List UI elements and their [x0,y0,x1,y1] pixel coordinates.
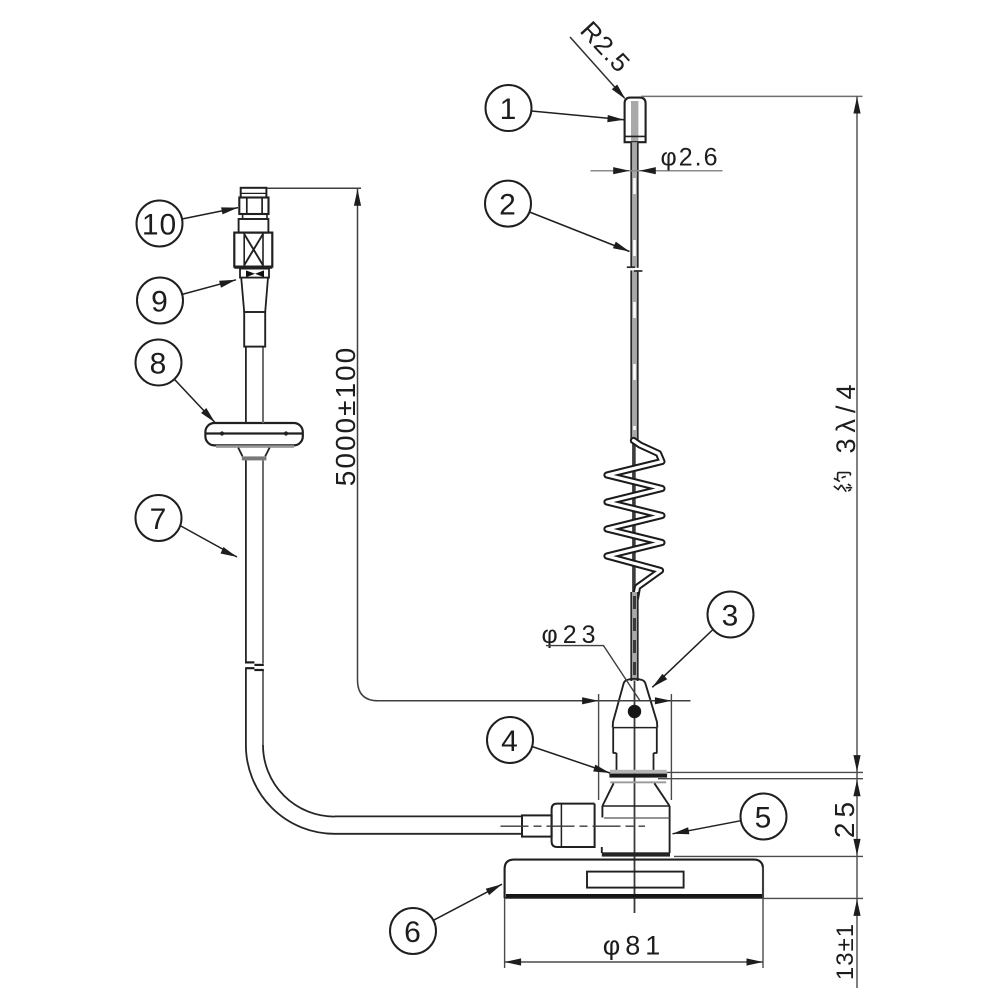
dimension: R2.5 tip radius [570,37,625,98]
φ23 leader line [546,646,640,701]
callout circle 10 [137,201,183,247]
leader arrow for callout 4 [532,747,610,774]
cable between sleeve and disc [246,347,263,423]
leader arrow for callout 1 [532,111,625,122]
callout circle 5 [741,794,787,840]
connector tip plug [241,188,267,198]
svg-text:13±1: 13±1 [832,923,859,980]
connector hex nut (part 10) [239,198,268,215]
dimension: 約 3λ/4 overall height [641,95,863,97]
svg-text:2: 2 [499,189,517,222]
cord grommet disc (part 8) [205,423,302,447]
dimension: 5000±100 cable length [267,188,691,701]
svg-text:5: 5 [755,802,773,835]
extension lines for 25 dimension [658,772,863,856]
connector collar [239,219,269,233]
svg-text:R2.5: R2.5 [575,15,637,79]
leader arrow for callout 6 [433,884,502,920]
leader arrow for callout 9 [182,280,236,295]
connector boot taper [241,278,268,312]
whip core rod through coil [632,443,636,599]
holder flange bands [609,770,667,784]
svg-text:φ81: φ81 [603,931,666,961]
coaxial cable vertical run [246,460,263,745]
svg-text:9: 9 [151,286,169,319]
leader arrow for callout 7 [180,526,237,557]
svg-text:5000±100: 5000±100 [330,346,361,486]
whip holder cone (part 3) [613,679,658,728]
whip rod break ticks [627,267,643,271]
whip tip cap (part 1) [625,98,646,143]
svg-text:8: 8 [150,348,168,381]
dimension: φ81 base diameter [505,867,763,968]
callout circle 2 [485,181,531,227]
cable plug ferrule [522,815,552,836]
cable axis centerline [501,825,646,827]
holder cylinder with notches [613,728,658,771]
svg-text:10: 10 [142,209,177,242]
whip rod upper (part 2) [631,142,639,443]
elbow body (part 5) [602,806,670,853]
grommet neck below disc [238,448,269,461]
coaxial cable elbow bend [246,745,335,834]
base neck trapezoid (part 4 region) [602,783,669,806]
callout circle 4 [487,717,533,763]
magnet base (part 6) [505,860,763,898]
leader arrow for callout 3 [652,630,713,688]
dimension: φ23 holder diameter [599,694,672,800]
callout circle 6 [390,908,436,954]
callout circle 7 [136,495,182,541]
svg-text:1: 1 [500,93,518,126]
leader arrow for callout 2 [530,212,630,252]
cable break (staggered cut) marks [245,662,264,670]
svg-text:3: 3 [722,600,740,633]
vertical centerline of mount [634,681,636,913]
coaxial cable horizontal run (part 7) [335,816,523,833]
callout circle 8 [136,340,182,386]
coil spring (loading coil) [607,441,662,599]
elbow bottom dark band [602,852,670,856]
set screw dot on holder [628,705,641,718]
callout circle 9 [137,278,183,324]
callout circle 3 [708,592,754,638]
svg-text:3λ/4: 3λ/4 [831,378,861,453]
svg-text:φ2.6: φ2.6 [661,144,720,172]
crimp collar with bowtie (part 9) [240,269,269,278]
connector knurled body with X [234,233,272,268]
svg-text:φ23: φ23 [541,621,600,649]
svg-text:6: 6 [404,916,422,949]
svg-text:4: 4 [501,725,519,758]
leader arrow for callout 10 [182,207,238,219]
connector step [243,214,267,219]
base label plate [587,872,684,888]
dimension: φ2.6 whip diameter [591,170,723,172]
dimension: 25 mount height [853,780,860,797]
whip rod lower (below coil) [631,592,639,681]
svg-text:7: 7 [150,503,168,536]
svg-text:25: 25 [829,797,860,838]
callout circle 1 [486,85,532,131]
connector boot lower sleeve [244,312,265,347]
leader arrow for callout 5 [673,821,741,835]
cable plug shell panel line [560,804,562,847]
leader arrow for callout 8 [174,379,215,422]
kanji 約 (approx.) hand-drawn [834,473,852,492]
cable plug outer shell at elbow [552,804,595,847]
dimension: 13±1 base height [763,897,863,899]
